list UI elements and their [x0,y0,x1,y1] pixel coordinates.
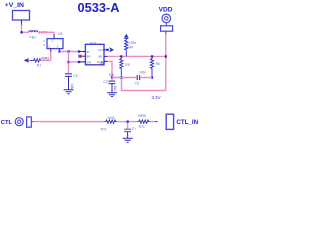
regulator U1 body [85,44,104,65]
ground arrow (left) [27,58,29,62]
resistor R1 [30,59,41,62]
port +V_IN box [13,11,30,21]
svg-text:CTL_IN: CTL_IN [176,119,198,126]
junction dot [67,50,69,52]
U1 right top pin stub + arrow marker [104,49,108,51]
svg-text:CTL: CTL [1,120,13,126]
wire U1 out to VDD rail [108,55,166,57]
svg-text:R1: R1 [37,64,41,68]
wire R3 to CTL_IN port [150,121,155,123]
wire R2 to R3 [117,121,137,123]
junction dot [127,121,129,123]
ground C1 [64,90,74,94]
svg-text:U2: U2 [58,32,63,36]
svg-text:10u: 10u [113,86,117,92]
wire Q1 pin1 down to R1 [41,52,51,60]
CTL connector circle [15,118,23,126]
svg-text:IN: IN [87,50,90,54]
inductor FB1 [29,31,38,33]
svg-text:5: 5 [43,43,45,47]
svg-text:10u: 10u [70,84,74,90]
U1 pin stub GND [79,61,85,63]
U1 pin stub IN [79,51,85,53]
wire vertical junction to lower wire and C1 [68,52,70,74]
capacitor C5 series plates [137,75,140,80]
wire +V_IN down and right [22,25,29,33]
svg-text:100n: 100n [139,71,146,75]
wire Q1 pin3 to U1 IN [60,51,79,53]
feedback wire left segment [112,77,136,79]
capacitor C3 [127,123,129,129]
wire lower to U1 GND pin [69,61,80,63]
junction dot [67,61,69,63]
red pin end tick [21,23,23,25]
U1 pentagon mark [101,62,103,64]
VDD box [161,26,173,31]
transistor U2 body [47,39,63,49]
svg-text:C5: C5 [135,81,139,85]
junction dot [111,76,113,78]
junction dot R5 top [120,55,122,57]
Q1 bottom-right pin stub [59,49,61,52]
port CTL_IN box [166,114,173,129]
red tick CTL [32,121,34,123]
svg-text:VDD: VDD [159,7,173,14]
port +V_IN pin stub [21,20,23,23]
resistor R3 [138,120,151,123]
svg-text:U?1: U?1 [90,42,97,46]
U1 right mid pin stub [104,55,108,57]
VDD arrow symbol [124,34,129,38]
svg-text:OUT: OUT [98,48,104,52]
junction dot R6 top [151,55,153,57]
svg-text:R?2: R?2 [139,125,145,129]
wire feedback loop to VDD rail [122,33,166,90]
U1 pin stub NC with no-connect X [81,55,85,57]
svg-text:10k: 10k [109,73,115,77]
junction dot R5 bottom [120,76,122,78]
resistor R4 pull-up [125,38,128,56]
capacitor C1 [65,74,72,77]
red tick Q1 pin1 [50,50,52,52]
junction dot R6 bottom [151,76,153,78]
svg-text:R5: R5 [125,63,129,67]
resistor R6 divider right [150,56,153,77]
ground C2 [107,93,117,97]
wire to Q1 top [38,32,54,34]
svg-text:49R9: 49R9 [138,114,146,118]
junction dot [20,31,22,33]
svg-text:EN: EN [87,55,91,59]
wire U1 pin to feedback vertical [108,61,112,77]
svg-text:+V_IN: +V_IN [5,2,24,9]
svg-text:1k00: 1k00 [107,116,114,120]
feedback wire right segment [141,77,152,79]
svg-text:FB1: FB1 [30,35,37,39]
svg-text:GN: GN [87,60,91,64]
svg-text:R?1: R?1 [101,127,107,131]
resistor R5 divider top [120,56,123,77]
svg-text:0533-A: 0533-A [78,0,120,15]
CTL box [27,117,32,127]
svg-text:100k: 100k [129,41,137,45]
wire CTL to R2 [33,121,104,123]
svg-text:AD: AD [98,55,102,59]
junction dot [58,50,60,52]
red tick below VDD [165,32,167,34]
svg-text:C?: C? [132,127,136,131]
no-connect arrow marker [110,48,114,52]
VDD stub circle to box [165,23,167,26]
resistor R2 [105,120,118,123]
U1 right bottom pin stub [104,60,108,62]
Q1 bottom-left pin stub [50,49,52,51]
svg-text:4: 4 [43,39,45,43]
red tick CTL_IN [155,121,158,123]
svg-text:VOS: VOS [97,60,103,64]
ground C3 [123,138,133,142]
svg-text:3.3V: 3.3V [152,95,161,100]
Q1 top pin stub [53,36,55,39]
svg-text:C1: C1 [73,74,78,78]
svg-text:R6: R6 [156,62,160,66]
svg-text:C2: C2 [103,80,108,84]
red pin end tick Q1 top [53,34,55,36]
junction dot on VDD rail [165,55,167,57]
capacitor C2 on output [111,78,113,81]
svg-text:49R9: 49R9 [41,56,49,60]
svg-text:R4: R4 [129,46,133,50]
VDD connector circle [162,14,171,23]
